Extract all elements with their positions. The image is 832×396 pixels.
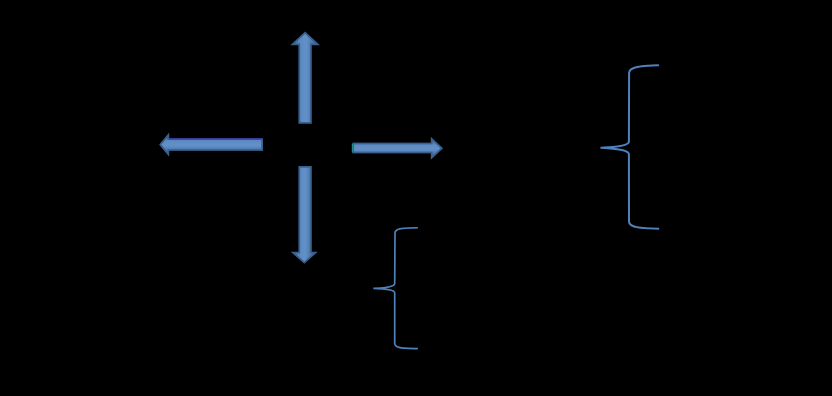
- down arrow: [293, 167, 316, 263]
- left arrow top edge highlight: [170, 138, 263, 140]
- right arrow: [353, 139, 442, 158]
- right arrow tail tick: [351, 144, 353, 152]
- left arrow: [160, 135, 262, 154]
- up arrow: [293, 33, 318, 123]
- small brace: [373, 228, 417, 349]
- large brace: [601, 65, 659, 228]
